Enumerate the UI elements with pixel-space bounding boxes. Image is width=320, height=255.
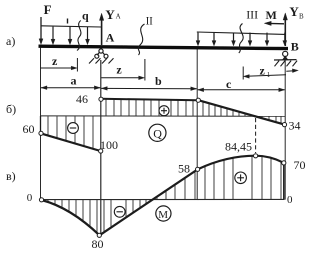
svg-text:0: 0: [27, 192, 33, 204]
svg-text:а): а): [6, 34, 15, 48]
Q minus sign symbol: [68, 123, 79, 134]
svg-text:q: q: [82, 9, 89, 23]
force F arrow: [39, 17, 43, 44]
svg-text:0: 0: [287, 194, 293, 206]
moment M arrow: [264, 21, 284, 25]
svg-text:58: 58: [178, 162, 190, 176]
svg-text:z: z: [260, 64, 266, 78]
dimension a: [41, 86, 100, 90]
svg-text:B: B: [291, 40, 299, 54]
dimension z1: [243, 67, 298, 80]
Q node markers: [39, 97, 287, 153]
M diagram circle label: [156, 206, 171, 221]
section wavy line III: [239, 24, 243, 54]
support B (roller): [274, 51, 297, 60]
svg-text:F: F: [44, 2, 52, 17]
M negative area hatching: [48, 200, 146, 233]
dimension z (first segment): [41, 58, 78, 72]
svg-text:84,45: 84,45: [225, 140, 252, 154]
reaction Y_B arrow: [283, 13, 287, 46]
Q diagram circle label: [149, 124, 166, 141]
Q positive rectangle hatching (segment b): [106, 99, 193, 116]
svg-text:Y: Y: [105, 7, 115, 22]
svg-text:c: c: [226, 77, 232, 91]
svg-text:A: A: [106, 31, 115, 45]
dimension z (second segment): [101, 59, 145, 81]
svg-text:A: A: [116, 13, 121, 21]
Q plus sign symbol (segment b): [159, 106, 169, 116]
support B hatching: [275, 61, 298, 67]
section wavy line I: [77, 21, 81, 51]
svg-text:1: 1: [267, 71, 271, 79]
section numeral I: [67, 19, 69, 24]
Q diagram zero line: [41, 115, 286, 117]
dashed line at Q zero crossing / M max: [255, 118, 257, 153]
Q negative area outline: [41, 116, 101, 151]
svg-text:III: III: [246, 8, 258, 22]
distributed load q arrows: [51, 27, 90, 45]
extension line at support A x=100.8: [100, 60, 102, 235]
beam: [39, 46, 289, 48]
reaction Y_A arrow: [99, 13, 103, 45]
M curve: [42, 156, 284, 236]
svg-text:70: 70: [294, 158, 306, 172]
svg-text:B: B: [299, 13, 304, 21]
extension line at b/c boundary x=197.2: [196, 48, 198, 200]
distributed load q line: [41, 26, 102, 27]
svg-text:M: M: [266, 8, 277, 22]
extension line at left end x=40: [40, 47, 42, 200]
Q negative area hatching: [48, 116, 93, 149]
Q top line +46: [101, 99, 197, 100]
svg-text:z: z: [52, 54, 58, 68]
M diagram zero line: [41, 198, 285, 200]
extension line at support B x=285.2: [284, 60, 286, 200]
M node markers: [39, 154, 286, 238]
support A (pin on rollers): [95, 49, 108, 58]
support A hatching: [89, 58, 114, 63]
svg-text:Q: Q: [153, 126, 162, 140]
Q segment c hatching: [203, 102, 281, 124]
svg-text:M: M: [158, 209, 168, 221]
Q sloping line segment c: [198, 100, 284, 124]
svg-text:b: b: [155, 74, 162, 88]
M plus sign symbol: [235, 172, 247, 184]
svg-text:б): б): [6, 102, 16, 116]
svg-text:46: 46: [76, 92, 88, 106]
svg-text:Y: Y: [289, 4, 299, 19]
dimension c: [198, 88, 285, 92]
svg-text:60: 60: [23, 122, 35, 136]
svg-text:a: a: [71, 74, 77, 88]
distributed load (segment c) line: [197, 32, 286, 34]
distributed load (segment c) arrows: [196, 33, 287, 46]
M right closing line: [283, 163, 285, 200]
svg-text:34: 34: [289, 119, 301, 133]
svg-text:в): в): [6, 169, 16, 183]
M positive area hatching: [157, 156, 281, 200]
M minus sign symbol: [114, 206, 125, 217]
section wavy line II: [138, 24, 144, 55]
dimension b: [101, 87, 196, 91]
svg-text:II: II: [146, 14, 153, 28]
svg-text:z: z: [116, 63, 122, 77]
svg-text:80: 80: [92, 237, 104, 251]
